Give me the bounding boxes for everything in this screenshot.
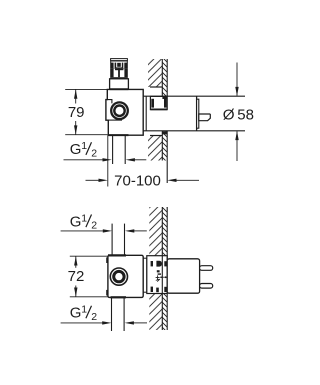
svg-text:58: 58 [237,106,254,123]
G1/2 bottom leader arrow [61,321,112,324]
wall recess ledge above pipe [150,86,162,88]
pipe top line / Ø58 extension [143,95,245,97]
wall wide hatch (bottom drawing, below pipe) [149,294,162,331]
in-wall fitting box (bottom drawing) [147,256,167,294]
dimension 79 extension top [65,88,107,90]
valve body (bottom drawing) [108,255,143,297]
port circle inner (top drawing) [114,106,124,116]
G1/2 counter arrow [126,158,147,161]
wall plaster dense hatch strip (bottom drawing, below pipe) [162,294,167,331]
wall plaster dense hatch strip (top drawing, below pipe) [162,131,167,183]
housing end cap face [196,96,198,131]
body ledge top-left [107,100,112,104]
pipe flange ring at body [145,96,147,130]
in-wall fitting box (top drawing) [150,96,167,109]
svg-text:Ø: Ø [223,106,235,123]
dimension 79 extension bottom [65,134,107,136]
dimension Ø58 lower line [235,131,238,161]
svg-text:1: 1 [81,304,87,316]
fitting centre markings [156,270,168,281]
dimension 79 line and arrows [74,89,77,134]
body flange tab bottom-left [106,290,108,296]
svg-text:2: 2 [91,147,97,159]
dimension 70-100 left arrow [86,179,108,182]
wall plaster dense hatch strip (bottom drawing, above pipe) [162,207,167,256]
svg-text:G: G [70,305,82,322]
dimension 72 extension bottom [70,296,108,298]
seal mark at wall/pipe top [162,97,167,99]
cartridge lid [111,59,128,61]
wall lines (bottom drawing) [162,207,167,330]
down pipes (bottom drawing) [112,297,125,331]
svg-text:70-100: 70-100 [114,173,161,190]
pipe bottom line / Ø58 extension [143,130,245,132]
body flange tab top-left [106,257,108,263]
dimension 72 line and arrows [74,256,77,297]
svg-text:2: 2 [91,311,97,323]
body face extension line [107,135,109,186]
dimension Ø58 upper line [235,63,238,97]
G1/2 leader arrow [64,158,112,161]
down pipe (top drawing) [113,135,126,164]
wall wide hatch (top drawing, below pipe) [148,136,162,161]
wall wide hatch (top drawing, above pipe) [148,59,162,87]
valve body (top drawing) [106,89,143,135]
port circle outer (bottom drawing) [110,268,127,285]
svg-text:1: 1 [81,140,87,152]
cartridge mid section [110,69,128,79]
adapter ring right of body [143,258,146,292]
wall recess ledge below pipe [150,135,162,137]
seal mark at wall/pipe bottom [162,131,167,134]
up pipes (bottom drawing) [112,224,124,256]
fitting screw marks top [151,261,167,267]
svg-text:79: 79 [68,104,85,121]
svg-text:G: G [70,213,82,230]
port circle outer (top drawing) [111,102,128,119]
svg-text:G: G [70,141,82,158]
prong lower [200,284,213,289]
junction thickening: top-drawing body bottom and collar seat [108,89,128,135]
cartridge cap (dark) [110,61,128,69]
dimension 72 extension top [70,255,108,257]
end cap lip [197,99,199,128]
dimension 70-100 right arrow [167,179,199,182]
port ring (bottom drawing) [114,271,124,281]
wall wide hatch (bottom drawing, above pipe) [149,207,162,256]
outer housing box (bottom drawing) [167,259,199,293]
G1/2 bottom counter arrow [125,321,147,324]
svg-text:1: 1 [81,212,87,224]
prong upper [200,266,213,271]
G1/2 top counter arrow [125,229,147,232]
body ledge bottom-left [108,119,122,121]
svg-text:2: 2 [91,220,97,232]
junction thickening: bottom-drawing body top/bottom between pipes [108,255,126,297]
cartridge collar [110,79,129,89]
svg-text:72: 72 [68,268,85,285]
G1/2 top leader arrow [61,229,113,232]
fitting screw marks bottom [151,287,167,293]
wall plaster dense hatch strip (top drawing, above pipe) [162,59,167,96]
spout stub [199,114,211,121]
